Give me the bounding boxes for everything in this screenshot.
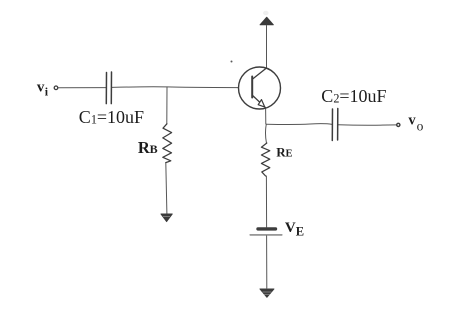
svg-text:v: v <box>408 112 416 128</box>
svg-text:V: V <box>285 220 296 236</box>
svg-text:C1=10uF: C1=10uF <box>79 107 144 127</box>
svg-text:C2=10uF: C2=10uF <box>321 86 386 106</box>
svg-text:o: o <box>417 118 424 133</box>
svg-text:B: B <box>150 142 158 156</box>
svg-text:E: E <box>286 149 293 160</box>
svg-text:i: i <box>45 84 49 98</box>
svg-text:v: v <box>37 80 45 96</box>
svg-text:E: E <box>296 225 304 239</box>
